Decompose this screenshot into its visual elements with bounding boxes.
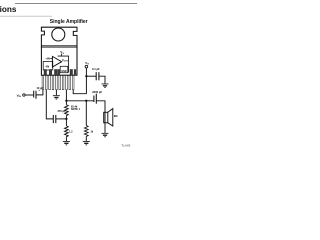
wire -IN lead riser down to feedback cap xyxy=(46,90,53,119)
svg-text:ions: ions xyxy=(0,5,17,14)
op-amp U1 triangle xyxy=(52,56,61,67)
wire output lead down to feedback node xyxy=(65,90,67,105)
ground G1 under GND pin xyxy=(53,95,60,99)
node VS bypass junction dot xyxy=(85,75,87,77)
svg-text:TL/H/9: TL/H/9 xyxy=(121,143,130,147)
wire C3 to ground xyxy=(99,76,105,83)
IC U1 leads (below body) xyxy=(42,75,74,90)
capacitor C1 10uF input coupling xyxy=(33,91,35,98)
ground G4 below R2 xyxy=(63,141,70,145)
ground G3 below speaker xyxy=(102,133,109,137)
svg-text:1.2: 1.2 xyxy=(69,130,73,133)
heading underline rule xyxy=(0,15,52,18)
wire VIN to input cap xyxy=(25,94,33,96)
internal GND network box xyxy=(60,66,68,72)
svg-text:GND: GND xyxy=(61,70,67,73)
top border rule xyxy=(15,3,137,4)
wire feedback cap to node xyxy=(56,118,67,120)
wire speaker to ground xyxy=(104,123,106,133)
resistor R3 1k to ground xyxy=(84,126,88,138)
node output junction dot xyxy=(65,100,67,102)
IC U1 body outline xyxy=(41,47,77,75)
wire junction down to R3 xyxy=(85,101,87,126)
ground G2 for bypass cap xyxy=(102,84,109,88)
ground G5 below R3 xyxy=(83,141,90,145)
svg-text:2200 µF: 2200 µF xyxy=(92,90,102,94)
wire bypass junction to C3 xyxy=(86,75,96,77)
wire VS internal rail to right riser xyxy=(58,56,69,72)
node VIN open terminal xyxy=(23,94,25,96)
IC U1 lead pads (top row) xyxy=(44,69,76,75)
wire R1 to node B xyxy=(65,117,67,126)
wire VS internal vertical to triangle xyxy=(60,54,62,57)
svg-text:NOTE 1: NOTE 1 xyxy=(71,108,81,111)
speaker LS1 xyxy=(104,112,108,123)
svg-text:10 µF: 10 µF xyxy=(36,86,43,90)
svg-text:Single Amplifier: Single Amplifier xyxy=(50,19,88,25)
resistor R2 1.2 to ground xyxy=(65,126,69,138)
capacitor C3 0.1uF supply bypass xyxy=(95,72,97,80)
wire VS to supply lead xyxy=(73,90,86,94)
capacitor C2 470uF feedback xyxy=(52,115,54,123)
IC U1 package tab outline with side notches xyxy=(41,27,77,47)
capacitor C4 2200uF output coupling xyxy=(93,96,95,103)
wire C4 to speaker xyxy=(96,101,105,123)
node output rail junction dot xyxy=(85,100,87,102)
svg-text:–IN: –IN xyxy=(45,64,49,68)
wire input cap to +IN lead xyxy=(36,90,43,95)
wire VS down to bypass junction xyxy=(85,68,87,94)
wire R2 to ground xyxy=(65,138,67,141)
wire GND lead down xyxy=(55,90,57,96)
svg-text:470 µF: 470 µF xyxy=(57,109,66,113)
wire +IN stub xyxy=(50,58,52,60)
node B junction dot xyxy=(65,118,67,120)
wire R3 to ground xyxy=(85,138,87,141)
svg-text:0.1 µF: 0.1 µF xyxy=(92,67,100,71)
IC U1 mounting hole xyxy=(52,28,65,41)
node VS open terminal xyxy=(85,65,88,68)
resistor R1 20k feedback xyxy=(65,105,69,117)
wire output feedback rail xyxy=(66,100,94,102)
svg-text:+IN: +IN xyxy=(45,56,49,60)
internal -IN network box xyxy=(43,61,53,70)
IC U1 tab/body seam line xyxy=(41,45,77,47)
